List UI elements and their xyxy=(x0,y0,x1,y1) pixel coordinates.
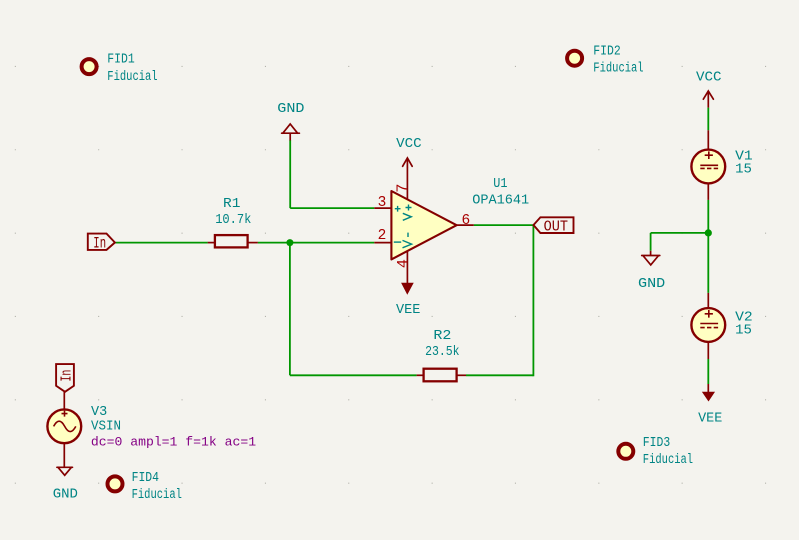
fiducial FID2 xyxy=(567,43,644,76)
power symbol GND (U1 pin 3) xyxy=(277,101,304,140)
svg-text:FID3: FID3 xyxy=(643,435,670,451)
svg-text:VEE: VEE xyxy=(396,302,420,318)
wire xyxy=(289,243,291,376)
wire xyxy=(258,242,375,244)
svg-text:FID2: FID2 xyxy=(593,43,620,59)
svg-text:15: 15 xyxy=(735,323,752,339)
resistor R1 10.7k xyxy=(208,196,258,247)
voltage source V2 (15 V) xyxy=(691,293,752,359)
global label In xyxy=(88,234,115,253)
svg-text:Fiducial: Fiducial xyxy=(132,487,182,503)
svg-text:VEE: VEE xyxy=(698,411,722,427)
fiducial FID4 xyxy=(108,470,182,503)
op-amp U1 OPA1641 xyxy=(374,167,474,283)
svg-text:Fiducial: Fiducial xyxy=(643,452,693,468)
power symbol VCC (V1 top) xyxy=(696,70,722,108)
wire xyxy=(289,140,291,208)
power symbol GND (V3) xyxy=(53,467,78,502)
pin name - (pin 2) xyxy=(394,233,412,248)
svg-text:GND: GND xyxy=(638,276,665,292)
power symbol VEE (U1 pin 4) xyxy=(396,283,420,318)
voltage source V3 (VSIN) xyxy=(47,392,121,468)
voltage source V1 (15 V) xyxy=(691,130,752,200)
svg-text:GND: GND xyxy=(53,487,78,503)
wire xyxy=(290,374,417,376)
svg-text:VSIN: VSIN xyxy=(91,418,121,434)
junction at inverting-input node xyxy=(286,239,293,246)
fiducial FID1 xyxy=(82,52,158,85)
svg-text:23.5k: 23.5k xyxy=(425,344,459,360)
wire xyxy=(116,242,208,244)
svg-text:4: 4 xyxy=(395,259,412,268)
wire xyxy=(707,200,709,293)
wire xyxy=(290,207,374,209)
svg-text:OPA1641: OPA1641 xyxy=(472,193,529,209)
resistor R2 23.5k xyxy=(417,328,466,381)
wire xyxy=(707,108,709,131)
global label OUT xyxy=(534,217,574,235)
svg-text:Fiducial: Fiducial xyxy=(107,69,157,85)
wire xyxy=(651,232,709,234)
svg-text:dc=0 ampl=1 f=1k ac=1: dc=0 ampl=1 f=1k ac=1 xyxy=(91,434,256,449)
svg-text:R2: R2 xyxy=(433,328,451,344)
power symbol VCC (U1 pin 7) xyxy=(396,136,422,167)
wire xyxy=(707,359,709,384)
global label In (rotated) xyxy=(56,364,75,392)
svg-text:2: 2 xyxy=(378,228,387,244)
svg-text:FID4: FID4 xyxy=(132,470,159,486)
wire xyxy=(650,233,652,251)
pin name + (pin 3) xyxy=(395,205,412,221)
power symbol GND (V1/V2 midpoint) xyxy=(638,251,665,292)
wire xyxy=(474,224,534,226)
fiducial FID3 xyxy=(618,435,693,468)
svg-text:R1: R1 xyxy=(223,196,240,212)
svg-text:10.7k: 10.7k xyxy=(215,212,251,228)
svg-text:VCC: VCC xyxy=(696,70,722,86)
svg-text:Fiducial: Fiducial xyxy=(593,60,643,76)
svg-text:VCC: VCC xyxy=(396,136,422,152)
svg-text:GND: GND xyxy=(277,101,304,117)
junction at V1/V2 midpoint xyxy=(705,229,712,236)
power symbol VEE (V2 bottom) xyxy=(698,384,722,427)
wire xyxy=(532,225,534,376)
svg-text:In: In xyxy=(93,235,106,253)
svg-text:In: In xyxy=(59,370,75,382)
svg-text:7: 7 xyxy=(395,184,412,193)
svg-text:3: 3 xyxy=(378,195,387,211)
wire xyxy=(466,374,533,376)
svg-text:FID1: FID1 xyxy=(107,52,134,68)
svg-text:OUT: OUT xyxy=(544,218,568,236)
svg-text:6: 6 xyxy=(462,213,471,229)
svg-text:U1: U1 xyxy=(493,176,507,192)
svg-text:15: 15 xyxy=(735,162,752,178)
